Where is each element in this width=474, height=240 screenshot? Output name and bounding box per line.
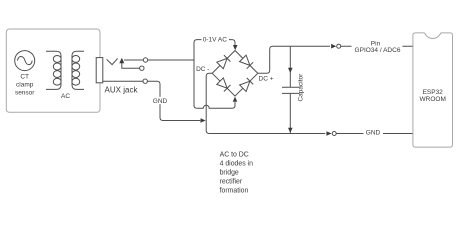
svg-text:0-1V AC: 0-1V AC	[203, 37, 228, 44]
svg-text:bridge: bridge	[220, 169, 239, 176]
svg-text:sensor: sensor	[15, 89, 35, 96]
svg-text:4 diodes in: 4 diodes in	[220, 160, 253, 167]
svg-text:DC +: DC +	[259, 76, 274, 83]
svg-text:GND: GND	[366, 130, 381, 137]
svg-text:WROOM: WROOM	[420, 96, 446, 103]
svg-text:AC: AC	[61, 93, 70, 100]
svg-text:AC to DC: AC to DC	[220, 151, 249, 158]
svg-text:DC -: DC -	[196, 66, 209, 73]
svg-text:rectifier: rectifier	[220, 178, 243, 185]
svg-text:formation: formation	[220, 187, 249, 194]
svg-text:AUX jack: AUX jack	[105, 86, 139, 95]
svg-text:GND: GND	[153, 98, 168, 105]
svg-text:CT: CT	[20, 73, 29, 80]
svg-text:clamp: clamp	[16, 81, 34, 88]
svg-text:Capacitor: Capacitor	[298, 73, 305, 102]
svg-text:GPIO34 / ADC6: GPIO34 / ADC6	[355, 47, 401, 54]
